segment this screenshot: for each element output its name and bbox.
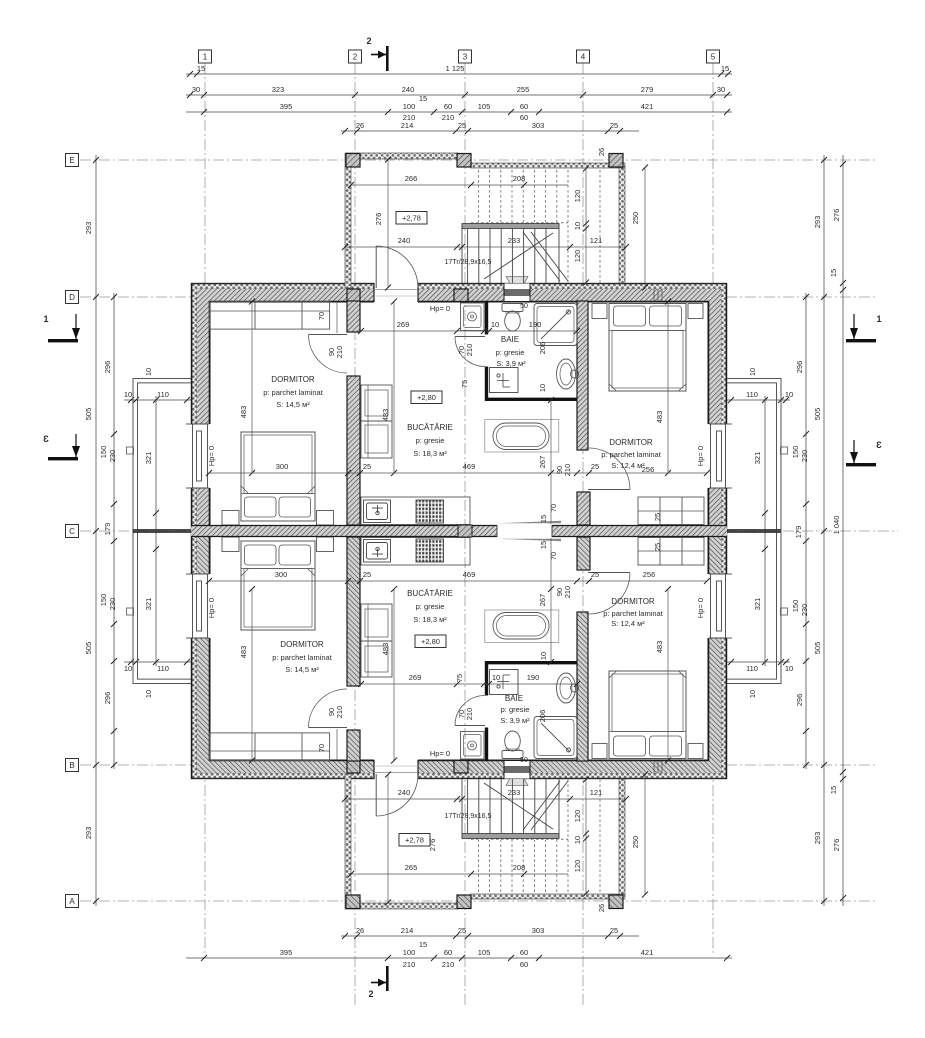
svg-text:10: 10	[492, 673, 500, 682]
svg-text:BUCĂTĂRIE: BUCĂTĂRIE	[407, 589, 453, 598]
left bedroom bed	[241, 432, 315, 521]
svg-text:210: 210	[442, 960, 455, 969]
porch dim row 240/233/121 top	[342, 236, 629, 250]
svg-text:17Tr/28,9x16,5: 17Tr/28,9x16,5	[445, 259, 492, 266]
svg-text:233: 233	[508, 236, 521, 245]
svg-text:1: 1	[203, 53, 208, 62]
right balcony dim 110	[726, 400, 790, 662]
porch dim row 240/233/121 bottom	[342, 788, 629, 802]
svg-text:483: 483	[655, 411, 664, 424]
svg-text:A: A	[69, 897, 75, 906]
svg-text:60: 60	[520, 948, 528, 957]
porch dim line 250	[644, 167, 646, 288]
svg-text:Hp= 0: Hp= 0	[207, 446, 216, 466]
stair landing edge	[462, 224, 559, 229]
kitchen dim line 269 bottom	[358, 673, 580, 687]
left balcony dim 110 top	[124, 400, 192, 662]
svg-text:293: 293	[813, 832, 822, 845]
svg-text:DORMITOR: DORMITOR	[611, 597, 655, 606]
svg-text:208: 208	[513, 174, 526, 183]
svg-text:50: 50	[520, 757, 528, 764]
svg-text:60: 60	[520, 113, 528, 122]
porch wall left band	[345, 159, 351, 288]
svg-text:10: 10	[144, 368, 153, 376]
room labels top-right bedroom	[601, 438, 662, 470]
svg-text:30: 30	[717, 85, 725, 94]
svg-text:230: 230	[800, 450, 809, 463]
svg-text:Ɛ: Ɛ	[43, 434, 49, 444]
interior dim ticks both halves	[249, 157, 671, 906]
bath partition walls	[485, 301, 578, 401]
svg-text:296: 296	[103, 692, 112, 705]
svg-text:+2,78: +2,78	[402, 214, 421, 223]
svg-text:150: 150	[99, 446, 108, 459]
kitchen sink	[364, 500, 391, 523]
svg-text:26: 26	[356, 926, 364, 935]
right window	[708, 424, 733, 488]
boiler niche	[490, 368, 519, 393]
axis 5	[712, 63, 714, 955]
room labels top-left bedroom	[263, 375, 324, 409]
svg-text:S: 14,5 м²: S: 14,5 м²	[285, 665, 319, 674]
left balcony dim 321 top	[155, 396, 157, 666]
svg-text:25: 25	[591, 462, 599, 471]
section marker 2 top	[366, 36, 388, 71]
svg-text:210: 210	[335, 706, 344, 719]
svg-text:Hp= 0: Hp= 0	[430, 304, 450, 313]
room labels bottom kitchen	[407, 589, 453, 624]
svg-text:25: 25	[363, 570, 371, 579]
svg-text:483: 483	[239, 646, 248, 659]
entry door opening in top wall	[374, 282, 418, 303]
porch dim line 276	[387, 159, 389, 288]
svg-text:250: 250	[631, 212, 640, 225]
svg-text:+2,80: +2,80	[417, 393, 436, 402]
svg-text:25: 25	[458, 926, 466, 935]
mirrored bottom half	[127, 531, 788, 909]
svg-text:10: 10	[573, 836, 582, 844]
svg-text:E: E	[69, 156, 74, 165]
svg-text:10: 10	[124, 664, 132, 673]
top dimension row 4 (26/214/25/303/25)	[341, 130, 639, 132]
svg-text:S: 12,4 м²: S: 12,4 м²	[611, 461, 645, 470]
svg-text:266: 266	[405, 174, 418, 183]
svg-text:BUCĂTĂRIE: BUCĂTĂRIE	[407, 423, 453, 432]
left window	[186, 424, 211, 488]
svg-text:150: 150	[99, 594, 108, 607]
level marker +2,78 top	[396, 212, 427, 225]
svg-text:296: 296	[795, 361, 804, 374]
svg-text:265: 265	[405, 863, 418, 872]
svg-text:p: gresie: p: gresie	[501, 705, 530, 714]
svg-text:230: 230	[800, 604, 809, 617]
room labels bottom bath	[500, 694, 530, 725]
svg-text:DORMITOR: DORMITOR	[280, 640, 324, 649]
svg-text:10: 10	[491, 320, 499, 329]
svg-text:BAIE: BAIE	[505, 694, 523, 703]
svg-text:121: 121	[590, 236, 603, 245]
svg-text:240: 240	[398, 236, 411, 245]
shower	[534, 304, 577, 346]
interior dim line top (300/25/469/25/256)	[206, 462, 710, 476]
svg-text:505: 505	[813, 642, 822, 655]
right balcony rail	[727, 378, 788, 531]
svg-text:250: 250	[631, 836, 640, 849]
svg-text:321: 321	[144, 452, 153, 465]
svg-text:421: 421	[641, 948, 654, 957]
svg-text:110: 110	[746, 390, 758, 399]
svg-text:321: 321	[753, 598, 762, 611]
svg-text:230: 230	[108, 450, 117, 463]
svg-text:321: 321	[144, 598, 153, 611]
room dim line 483 right bedroom	[667, 301, 669, 473]
svg-text:323: 323	[272, 85, 285, 94]
top dimension row 1 (overall 1 125)	[186, 73, 732, 75]
svg-text:10: 10	[539, 652, 548, 660]
svg-text:276: 276	[832, 209, 841, 222]
svg-text:505: 505	[84, 408, 93, 421]
section marker 3 right	[846, 440, 882, 466]
svg-text:26: 26	[597, 148, 606, 156]
center wall	[191, 524, 727, 538]
svg-text:60: 60	[444, 102, 452, 111]
room dim line 267	[550, 399, 552, 525]
axis B	[80, 764, 878, 766]
svg-text:233: 233	[508, 788, 521, 797]
svg-text:1: 1	[876, 314, 881, 324]
svg-text:105: 105	[478, 948, 491, 957]
svg-text:2: 2	[366, 36, 371, 46]
axis 1	[204, 63, 206, 955]
svg-text:75: 75	[455, 674, 464, 682]
center wall niche whisker	[498, 521, 561, 523]
kitchen dim line 269 top	[358, 320, 580, 334]
section marker 1 left	[43, 314, 80, 342]
stair solid treads	[462, 224, 559, 284]
porch entry door leaf	[376, 246, 418, 288]
svg-text:2: 2	[353, 53, 358, 62]
svg-text:D: D	[69, 293, 75, 302]
svg-text:469: 469	[463, 570, 476, 579]
porch dim row 265/208 bottom	[348, 863, 568, 877]
svg-text:110: 110	[157, 664, 169, 673]
svg-text:70: 70	[549, 504, 558, 512]
right balcony divider	[727, 529, 781, 531]
svg-text:469: 469	[463, 462, 476, 471]
right bedroom bed	[609, 304, 686, 392]
top dimension row 3 (395/100/60/105/60/421)	[186, 111, 732, 113]
svg-text:p: gresie: p: gresie	[416, 436, 445, 445]
svg-text:110: 110	[746, 664, 758, 673]
axis 2	[354, 63, 356, 1008]
svg-text:505: 505	[84, 642, 93, 655]
svg-text:25: 25	[458, 121, 466, 130]
svg-text:Hp= 0: Hp= 0	[696, 598, 705, 618]
svg-text:255: 255	[517, 85, 530, 94]
porch column axis2	[346, 154, 360, 168]
center wall pier axis3	[458, 525, 472, 537]
svg-text:269: 269	[397, 320, 410, 329]
svg-text:17Tr/28,9x16,5: 17Tr/28,9x16,5	[445, 813, 492, 820]
left balcony divider	[133, 529, 191, 531]
wall pier below right-bedroom door	[577, 492, 590, 525]
svg-text:395: 395	[280, 948, 293, 957]
svg-text:206: 206	[538, 710, 547, 723]
svg-text:267: 267	[538, 456, 547, 469]
svg-text:Hp= 0: Hp= 0	[696, 446, 705, 466]
svg-text:321: 321	[753, 452, 762, 465]
svg-text:25: 25	[610, 121, 618, 130]
svg-text:4: 4	[581, 53, 586, 62]
svg-text:100: 100	[403, 102, 416, 111]
svg-text:505: 505	[813, 408, 822, 421]
toilet	[502, 304, 523, 332]
svg-text:300: 300	[276, 462, 289, 471]
wall pier axis2	[347, 289, 360, 302]
svg-text:10: 10	[748, 368, 757, 376]
svg-text:25: 25	[363, 462, 371, 471]
left dimension column inner (296/150/230/179/...)	[113, 293, 115, 769]
bedroom door leaf	[309, 335, 348, 374]
svg-text:26: 26	[597, 904, 606, 912]
kitchen counter	[361, 497, 470, 525]
svg-text:60: 60	[520, 960, 528, 969]
svg-text:p: parchet laminat: p: parchet laminat	[601, 450, 662, 459]
svg-text:296: 296	[103, 361, 112, 374]
room dim line 483 left bedroom	[251, 301, 253, 473]
svg-text:25: 25	[610, 926, 618, 935]
grid bubbles left	[66, 154, 79, 908]
svg-text:15: 15	[539, 515, 548, 523]
section marker 3 left	[43, 434, 80, 460]
svg-text:10: 10	[785, 390, 793, 399]
svg-text:Hp= 0: Hp= 0	[207, 598, 216, 618]
svg-text:210: 210	[465, 344, 474, 357]
svg-text:Ɛ: Ɛ	[876, 440, 882, 450]
svg-text:+2,80: +2,80	[421, 637, 440, 646]
right bedroom wardrobe	[638, 497, 704, 525]
interior wall bedroom/kitchen upper part	[347, 301, 360, 332]
svg-text:10: 10	[538, 384, 547, 392]
svg-text:300: 300	[275, 570, 288, 579]
svg-text:256: 256	[643, 570, 656, 579]
svg-text:+2,78: +2,78	[405, 836, 424, 845]
svg-text:15: 15	[419, 940, 427, 949]
room dim line 483 kitchen	[393, 301, 395, 473]
svg-text:10: 10	[748, 690, 757, 698]
svg-text:179: 179	[794, 526, 803, 539]
left balcony rail	[127, 378, 192, 531]
section marker 1 right	[846, 314, 882, 342]
svg-text:293: 293	[813, 216, 822, 229]
svg-text:S: 3,9 м²: S: 3,9 м²	[496, 359, 526, 368]
svg-text:p: gresie: p: gresie	[416, 602, 445, 611]
svg-text:1: 1	[43, 314, 48, 324]
svg-text:269: 269	[409, 673, 422, 682]
svg-text:395: 395	[280, 102, 293, 111]
svg-text:276: 276	[374, 213, 383, 226]
svg-text:25: 25	[653, 543, 662, 551]
svg-text:210: 210	[335, 346, 344, 359]
svg-text:S: 18,3 м²: S: 18,3 м²	[413, 615, 447, 624]
svg-text:208: 208	[513, 863, 526, 872]
svg-text:p: parchet laminat: p: parchet laminat	[263, 388, 324, 397]
svg-text:C: C	[69, 527, 75, 536]
svg-text:267: 267	[538, 594, 547, 607]
svg-text:60: 60	[444, 948, 452, 957]
svg-text:150: 150	[791, 446, 800, 459]
bottom dimension row 2 (395/100/60/105/60/421)	[186, 957, 732, 959]
svg-text:DORMITOR: DORMITOR	[271, 375, 315, 384]
porch column right	[609, 154, 623, 168]
svg-text:276: 276	[832, 839, 841, 852]
svg-text:S: 14,5 м²: S: 14,5 м²	[276, 400, 310, 409]
svg-text:120: 120	[573, 190, 582, 203]
svg-text:Hp= 0: Hp= 0	[430, 749, 450, 758]
top dimension row 2 (30/323/240/255/279/30)	[186, 94, 732, 96]
stair break line	[484, 232, 568, 281]
bathtub	[485, 420, 559, 453]
room labels bottom-left bedroom	[272, 640, 333, 674]
axis C	[80, 530, 898, 532]
interior dim line bottom (300/25/469/25/256)	[206, 570, 710, 584]
svg-text:5: 5	[711, 53, 716, 62]
svg-text:BAIE: BAIE	[501, 335, 519, 344]
svg-text:15: 15	[721, 64, 729, 73]
svg-text:1 040: 1 040	[832, 516, 841, 535]
svg-text:30: 30	[192, 85, 200, 94]
svg-text:421: 421	[641, 102, 654, 111]
grid bubbles top	[199, 50, 720, 63]
svg-text:S: 3,9 м²: S: 3,9 м²	[500, 716, 530, 725]
axis 4	[582, 63, 584, 1008]
center wall opening	[497, 524, 552, 538]
svg-text:240: 240	[402, 85, 415, 94]
stair top band	[471, 163, 625, 168]
small bath window in top wall	[504, 277, 530, 302]
room labels top kitchen	[407, 423, 453, 458]
svg-text:230: 230	[108, 598, 117, 611]
svg-text:S: 18,3 м²: S: 18,3 м²	[413, 449, 447, 458]
bath door leaf	[455, 337, 485, 367]
porch dim row 266/208 top	[348, 174, 568, 188]
axis A	[80, 900, 878, 902]
level marker +2,80 bottom	[415, 635, 446, 648]
washing machine	[461, 303, 485, 331]
svg-text:190: 190	[529, 320, 542, 329]
svg-text:120: 120	[573, 860, 582, 873]
room labels bottom-right bedroom	[603, 597, 664, 628]
svg-text:B: B	[69, 761, 74, 770]
exterior wall hatched band	[197, 289, 721, 531]
right bedroom door leaf	[588, 448, 630, 490]
porch column axis3	[457, 154, 471, 168]
svg-text:10: 10	[573, 222, 582, 230]
svg-text:110: 110	[157, 390, 169, 399]
svg-text:240: 240	[398, 788, 411, 797]
building geometry top half (mirrored below)	[127, 153, 788, 531]
svg-text:210: 210	[442, 113, 455, 122]
svg-text:10: 10	[785, 664, 793, 673]
stair right band	[619, 168, 625, 283]
svg-text:105: 105	[478, 102, 491, 111]
right dimension column inner (296/150/230/179)	[805, 293, 807, 769]
level marker +2,78 bottom	[399, 834, 430, 847]
svg-text:293: 293	[84, 827, 93, 840]
svg-text:179: 179	[103, 523, 112, 536]
right bedroom side tables	[592, 304, 703, 319]
svg-text:p: parchet laminat: p: parchet laminat	[272, 653, 333, 662]
Hp labels	[207, 303, 705, 764]
exterior wall outlines	[191, 283, 727, 531]
left bedroom closet	[210, 302, 337, 333]
svg-text:120: 120	[573, 810, 582, 823]
svg-text:483: 483	[381, 409, 390, 422]
exterior wall insulation band	[191, 283, 727, 531]
svg-text:10: 10	[124, 390, 132, 399]
svg-text:120: 120	[573, 250, 582, 263]
kitchen tall cabinets	[361, 385, 392, 458]
svg-text:25: 25	[591, 570, 599, 579]
axis D	[80, 296, 878, 298]
svg-text:293: 293	[84, 222, 93, 235]
svg-text:10: 10	[144, 690, 153, 698]
svg-text:214: 214	[401, 926, 414, 935]
svg-text:150: 150	[791, 600, 800, 613]
svg-text:50: 50	[520, 303, 528, 310]
porch wall top band	[345, 153, 458, 159]
svg-text:1 125: 1 125	[446, 64, 465, 73]
stair dashed treads	[471, 170, 600, 283]
interior wall bedroom/kitchen lower part	[347, 376, 360, 525]
svg-text:25: 25	[653, 513, 662, 521]
svg-text:26: 26	[356, 121, 364, 130]
left bedroom side tables	[222, 511, 334, 526]
svg-text:210: 210	[563, 586, 572, 599]
svg-text:210: 210	[465, 708, 474, 721]
svg-text:483: 483	[655, 641, 664, 654]
svg-text:75: 75	[460, 380, 469, 388]
svg-text:DORMITOR: DORMITOR	[609, 438, 653, 447]
svg-text:15: 15	[419, 94, 427, 103]
svg-text:60: 60	[520, 102, 528, 111]
bottom dimension row 1 (26/214/25/303/25)	[341, 935, 639, 937]
svg-text:121: 121	[590, 788, 603, 797]
axis 3	[464, 63, 466, 1008]
right dimension column outer (276/15/1 040/15/276)	[842, 155, 844, 906]
svg-text:214: 214	[401, 121, 414, 130]
axis E	[80, 159, 878, 161]
svg-text:15: 15	[829, 269, 838, 277]
svg-text:3: 3	[463, 53, 468, 62]
svg-text:210: 210	[403, 960, 416, 969]
svg-text:279: 279	[641, 85, 654, 94]
svg-text:p: gresie: p: gresie	[496, 348, 525, 357]
room labels top bath	[496, 335, 527, 368]
svg-text:100: 100	[403, 948, 416, 957]
svg-text:206: 206	[538, 342, 547, 355]
right dimension column mid (293/505/505/293)	[823, 155, 825, 906]
svg-text:S: 12,4 м²: S: 12,4 м²	[611, 619, 645, 628]
svg-text:70: 70	[549, 552, 558, 560]
wash basin	[557, 359, 579, 389]
svg-text:483: 483	[381, 643, 390, 656]
level marker +2,80 top	[411, 391, 442, 404]
left dimension column outer (293/505/505/293)	[95, 155, 97, 906]
svg-text:2: 2	[368, 989, 373, 999]
svg-text:70: 70	[317, 744, 326, 752]
svg-text:303: 303	[532, 926, 545, 935]
